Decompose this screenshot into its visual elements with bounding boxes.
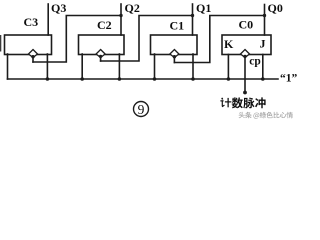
- wire C2 clock stub: [100, 56, 102, 61]
- svg-text:C2: C2: [97, 18, 112, 32]
- flip-flop C2 box: [79, 35, 125, 55]
- clock wedge C3: [29, 50, 38, 58]
- wire C1 J input: [192, 54, 194, 79]
- junction dot bus C0 K: [227, 77, 231, 81]
- wire C2 J input: [118, 54, 120, 79]
- junction dot Q2 branch: [119, 14, 122, 17]
- svg-text:C0: C0: [239, 18, 254, 32]
- svg-text:K: K: [224, 37, 234, 51]
- junction dot bus C3 J: [46, 77, 50, 81]
- wire Q0 to C1 clock: [174, 16, 264, 63]
- junction dot bus C0 J: [261, 77, 265, 81]
- svg-text:C3: C3: [24, 15, 39, 29]
- wire Q3 output: [47, 4, 49, 35]
- figure number 9 circle: [134, 102, 149, 117]
- clock wedge C1: [170, 50, 179, 58]
- junction dot bus C1 J: [191, 77, 195, 81]
- wire C1 K input: [154, 54, 156, 79]
- wire Q2 output: [120, 4, 122, 35]
- flip-flop C1 box: [151, 35, 198, 55]
- wire Q1 output: [192, 4, 194, 35]
- flip-flop C0 box: [222, 35, 271, 55]
- wire logic-1 bus: [8, 78, 279, 80]
- svg-text:Q2: Q2: [125, 1, 140, 15]
- wire Q2 to C3 clock: [33, 16, 121, 63]
- svg-text:Q1: Q1: [196, 1, 211, 15]
- scan edge artifact: [0, 35, 1, 52]
- wire C0 J input: [262, 55, 264, 80]
- node counting pulse terminal: [243, 91, 247, 95]
- svg-text:9: 9: [138, 102, 145, 117]
- wire Q0 output: [264, 5, 266, 36]
- wire C3 K input: [7, 54, 9, 79]
- clock wedge C0: [241, 50, 250, 58]
- flip-flop C3 box: [5, 35, 52, 55]
- svg-text:Q3: Q3: [51, 1, 66, 15]
- wire C2 K input: [81, 54, 83, 79]
- junction dot below wedge C2: [99, 55, 102, 58]
- junction dot bus C2 K: [80, 77, 84, 81]
- junction dot bus C2 J: [118, 77, 122, 81]
- svg-text:Q0: Q0: [268, 1, 283, 15]
- junction dot below wedge C0: [243, 55, 246, 58]
- junction dot below wedge C3: [31, 55, 34, 58]
- watermark: [239, 112, 293, 119]
- label counting pulse (ji shu mai chong): [220, 97, 265, 108]
- junction dot below wedge C1: [173, 55, 176, 58]
- svg-text:cp: cp: [249, 56, 260, 68]
- wire C3 J input: [46, 54, 48, 79]
- clock wedge C2: [96, 50, 105, 58]
- svg-text:“1”: “1”: [280, 72, 298, 84]
- wire C1 clock stub: [173, 56, 175, 63]
- wire Q1 to C2 clock: [101, 16, 193, 62]
- junction dot Q1 branch: [191, 14, 194, 17]
- wire C0 K input: [227, 55, 229, 80]
- svg-text:J: J: [260, 37, 266, 51]
- wire C0 clock cp line: [244, 56, 246, 93]
- junction dot bus C1 K: [153, 77, 157, 81]
- svg-text:C1: C1: [170, 19, 185, 33]
- wire C3 clock stub: [32, 56, 34, 62]
- junction dot Q0 branch: [263, 14, 266, 17]
